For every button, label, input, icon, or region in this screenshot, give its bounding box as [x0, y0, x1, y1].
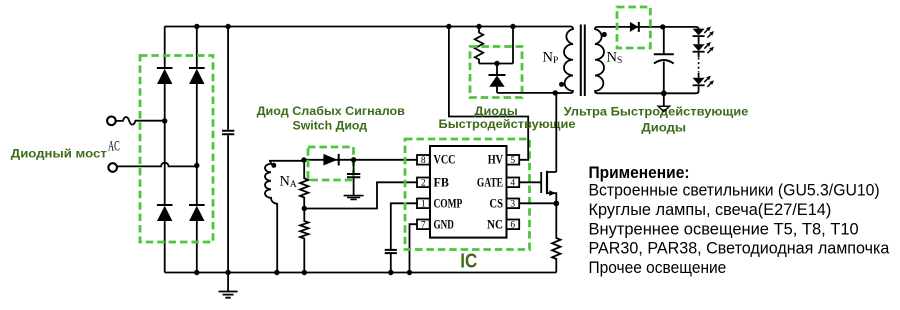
wire bridge right column: [196, 27, 198, 273]
node GND rail: [407, 270, 412, 275]
svg-text:2: 2: [421, 179, 426, 189]
wire COMP: [391, 203, 417, 249]
green box snubber: [470, 47, 522, 98]
wire snubber right leg: [512, 27, 514, 64]
svg-text:7: 7: [421, 221, 426, 231]
diode D4: [189, 205, 205, 221]
node COMP cap ground: [388, 270, 393, 275]
svg-text:1: 1: [421, 200, 426, 210]
svg-text:Прочее освещение: Прочее освещение: [589, 258, 727, 277]
green box bridge: [140, 56, 213, 243]
fuse F1: [116, 117, 165, 125]
wire snubber bottom: [479, 63, 513, 65]
green box output diode: [617, 7, 650, 48]
transformer T1 primary NP: [555, 27, 573, 94]
node rail right column: [194, 24, 199, 29]
svg-text:AC: AC: [108, 138, 120, 154]
svg-text:Диоды: Диоды: [641, 120, 686, 134]
green box switch diode: [308, 147, 354, 180]
node snubber rail: [510, 24, 515, 29]
svg-text:Круглые лампы, свеча(E27/E14): Круглые лампы, свеча(E27/E14): [589, 200, 832, 219]
diode D3: [157, 205, 173, 221]
pin 1: [417, 199, 430, 210]
svg-text:PAR30, PAR38, Светодиодная лам: PAR30, PAR38, Светодиодная лампочка: [589, 239, 890, 258]
svg-text:HV: HV: [488, 153, 503, 167]
wire secondary top: [598, 27, 699, 30]
svg-text:Диод Слабых Сигналов: Диод Слабых Сигналов: [257, 104, 405, 118]
node gnd cap: [225, 270, 230, 275]
node rail cap: [225, 24, 230, 29]
capacitor C2 VCC: [347, 160, 360, 195]
node NA bottom rail: [274, 270, 279, 275]
wire top DC rail: [165, 26, 571, 28]
node HV rail: [446, 24, 451, 29]
wire VCC line: [304, 159, 417, 161]
svg-text:Диоды: Диоды: [474, 104, 517, 118]
svg-text:CS: CS: [489, 196, 503, 210]
node R3 rail: [476, 24, 481, 29]
LED L2 arrows: [704, 42, 714, 53]
svg-text:GND: GND: [434, 217, 454, 231]
LED L2: [693, 44, 705, 52]
node VCC line left: [301, 157, 306, 162]
svg-text:Switch Диод: Switch Диод: [293, 118, 368, 132]
node drain junction: [553, 90, 558, 95]
green box IC: [405, 139, 530, 250]
resistor R4 sense: [552, 203, 560, 272]
node NA phase dot: [271, 163, 276, 168]
wire bottom ground rail: [165, 272, 557, 274]
node output diode junction: [660, 24, 665, 29]
ground main earth: [219, 273, 238, 298]
node AC tap right: [194, 163, 199, 168]
LED L3 arrows: [704, 76, 714, 87]
resistor R2: [300, 209, 308, 273]
svg-text:6: 6: [510, 221, 515, 231]
wire secondary bottom: [598, 91, 699, 94]
node VCC cap: [351, 157, 356, 162]
AC terminal upper: [107, 117, 116, 126]
resistor R1: [300, 160, 308, 209]
pin 8: [417, 155, 430, 166]
svg-text:Применение:: Применение:: [589, 163, 690, 182]
wire HV to rail: [449, 27, 528, 160]
diode D5 small-signal switch: [323, 154, 338, 166]
ground VCC cap earth: [344, 196, 364, 200]
resistor R3 snubber: [475, 27, 483, 64]
svg-text:COMP: COMP: [434, 196, 463, 210]
node NS phase dot: [602, 32, 607, 37]
transformer T1 secondary NS: [595, 27, 604, 93]
pin 2: [417, 178, 430, 189]
node CS source junction: [553, 201, 559, 207]
capacitor C3 output: [654, 27, 674, 93]
ground secondary triangle: [658, 93, 669, 111]
svg-text:4: 4: [510, 179, 515, 189]
node R2 ground: [302, 270, 307, 275]
AC terminal lower: [108, 163, 117, 172]
wire LED chain column: [698, 29, 700, 91]
svg-text:8: 8: [421, 156, 426, 166]
diode D6 snubber: [489, 64, 506, 93]
pin 3: [507, 199, 520, 210]
wire snubber to drain: [497, 92, 555, 94]
svg-text:IC: IC: [460, 251, 477, 273]
wire lower AC with hop over left column: [117, 163, 197, 167]
svg-text:NC: NC: [487, 217, 503, 231]
LED L1 arrows: [704, 26, 714, 37]
pin 6: [507, 220, 520, 231]
svg-text:Внутреннее освещение Т5, Т8, Т: Внутреннее освещение Т5, Т8, Т10: [589, 219, 859, 238]
node gnd right column: [194, 270, 199, 275]
pin 4: [507, 178, 520, 189]
diode D1: [157, 68, 173, 84]
pin 7: [417, 220, 430, 231]
node FB junction: [302, 206, 307, 211]
svg-text:5: 5: [510, 156, 515, 166]
svg-text:Ультра Быстродействующие: Ультра Быстродействующие: [564, 104, 749, 118]
pin 5: [507, 155, 520, 166]
op-amp U1 IC body: [430, 146, 507, 238]
svg-text:GATE: GATE: [477, 175, 503, 189]
wire bridge left column: [164, 27, 166, 273]
LED L1: [693, 29, 705, 36]
node output cap bottom: [661, 90, 667, 96]
wire GND pin: [410, 224, 418, 272]
wire LED dotted continuation: [698, 58, 700, 73]
transistor Q1 MOSFET: [519, 171, 556, 204]
diode D7 output ultrafast: [630, 22, 639, 32]
svg-text:VCC: VCC: [434, 153, 456, 167]
winding NA auxiliary: [265, 161, 304, 273]
capacitor C4 COMP: [385, 250, 397, 273]
wire FB network: [304, 182, 417, 208]
svg-text:Диодный мост: Диодный мост: [11, 146, 107, 160]
node AC tap left: [162, 118, 167, 123]
wire CS: [519, 202, 556, 204]
LED L3: [693, 78, 705, 86]
svg-text:Быстродействующие: Быстродействующие: [439, 117, 576, 131]
capacitor C1 bus filter: [222, 27, 234, 273]
node NP phase dot: [559, 82, 564, 87]
svg-text:Встроенные светильники (GU5.3/: Встроенные светильники (GU5.3/GU10): [589, 181, 880, 200]
svg-text:FB: FB: [434, 175, 449, 189]
node snubber mid: [494, 61, 499, 66]
wire drain: [555, 93, 557, 172]
diode D2: [189, 68, 205, 84]
transformer core: [581, 25, 585, 97]
svg-text:3: 3: [510, 200, 515, 210]
